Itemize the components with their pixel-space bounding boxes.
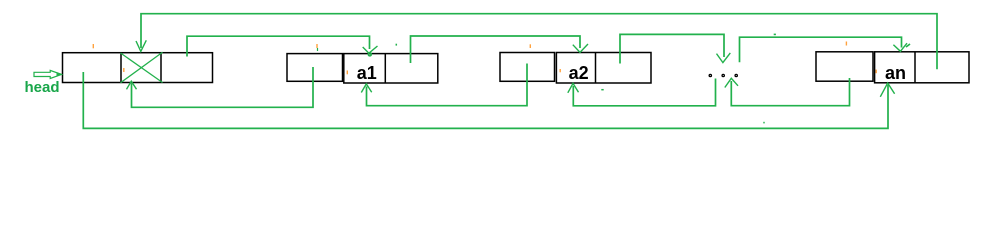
arrowhead into N1 X-cell bottom	[127, 81, 137, 89]
X mark (null data) in N1 middle cell	[121, 52, 163, 83]
arrowhead into dots bottom	[725, 78, 738, 87]
arrowhead into an top	[893, 43, 907, 51]
stray green dot near N2 next wire	[395, 44, 397, 46]
stray green dot above long bottom wire	[763, 122, 765, 124]
orange tick in N1 X cell	[123, 68, 125, 72]
wire: N2.next -> a2	[411, 36, 581, 63]
arrowhead into an bottom	[880, 83, 894, 97]
extra stray stroke near an arrowhead	[906, 44, 910, 47]
svg-text:an: an	[885, 63, 906, 83]
svg-text:a2: a2	[569, 63, 589, 83]
wire: N1.next -> a1	[187, 36, 370, 56]
orange tick in N2 a1 cell	[346, 71, 348, 75]
node N4 (an) box	[816, 52, 969, 83]
arrowhead into a1 top	[363, 46, 378, 53]
small loop at a1 arrow tip	[368, 53, 371, 56]
green wires	[83, 14, 937, 129]
wire: dots.prev -> a2	[573, 79, 715, 106]
wire: N4.prev -> dots	[731, 78, 849, 106]
head pointer block arrow	[34, 70, 62, 78]
wire: N2.prev -> N1	[132, 67, 314, 107]
wire: N4.next -> head (long top line)	[141, 14, 937, 69]
arrowhead into N1 X-cell top	[136, 40, 146, 51]
orange tick in N3 a2 cell	[559, 69, 561, 72]
green tick above N2	[317, 48, 319, 51]
wire: dots.next -> an	[740, 37, 902, 62]
node N2 (a1) box	[287, 54, 438, 83]
stray green dash below N3	[601, 89, 603, 91]
wire: N3.next -> dots	[620, 34, 724, 63]
ellipsis dots between N3 and N4	[709, 74, 737, 76]
wire: N1.prev -> an (long bottom line)	[83, 72, 888, 128]
node N3 (a2) box	[500, 53, 651, 84]
stray green dash above dots next wire	[774, 33, 776, 35]
orange tick in N4 an cell	[875, 70, 877, 74]
svg-text:head: head	[25, 79, 60, 96]
node N1 (header node) box	[63, 53, 213, 83]
orange tick above N4	[845, 42, 847, 46]
orange tick above N3	[529, 44, 531, 48]
arrowhead into a2 bottom	[568, 83, 579, 92]
orange tick above N2	[316, 44, 318, 48]
arrowhead into a1 bottom	[361, 84, 371, 93]
arrowhead into a2 top	[573, 44, 588, 52]
wire: N3.prev -> a1	[367, 64, 528, 106]
svg-text:a1: a1	[357, 63, 377, 83]
arrowhead into dots	[717, 53, 731, 63]
orange tick above N1	[92, 44, 94, 48]
